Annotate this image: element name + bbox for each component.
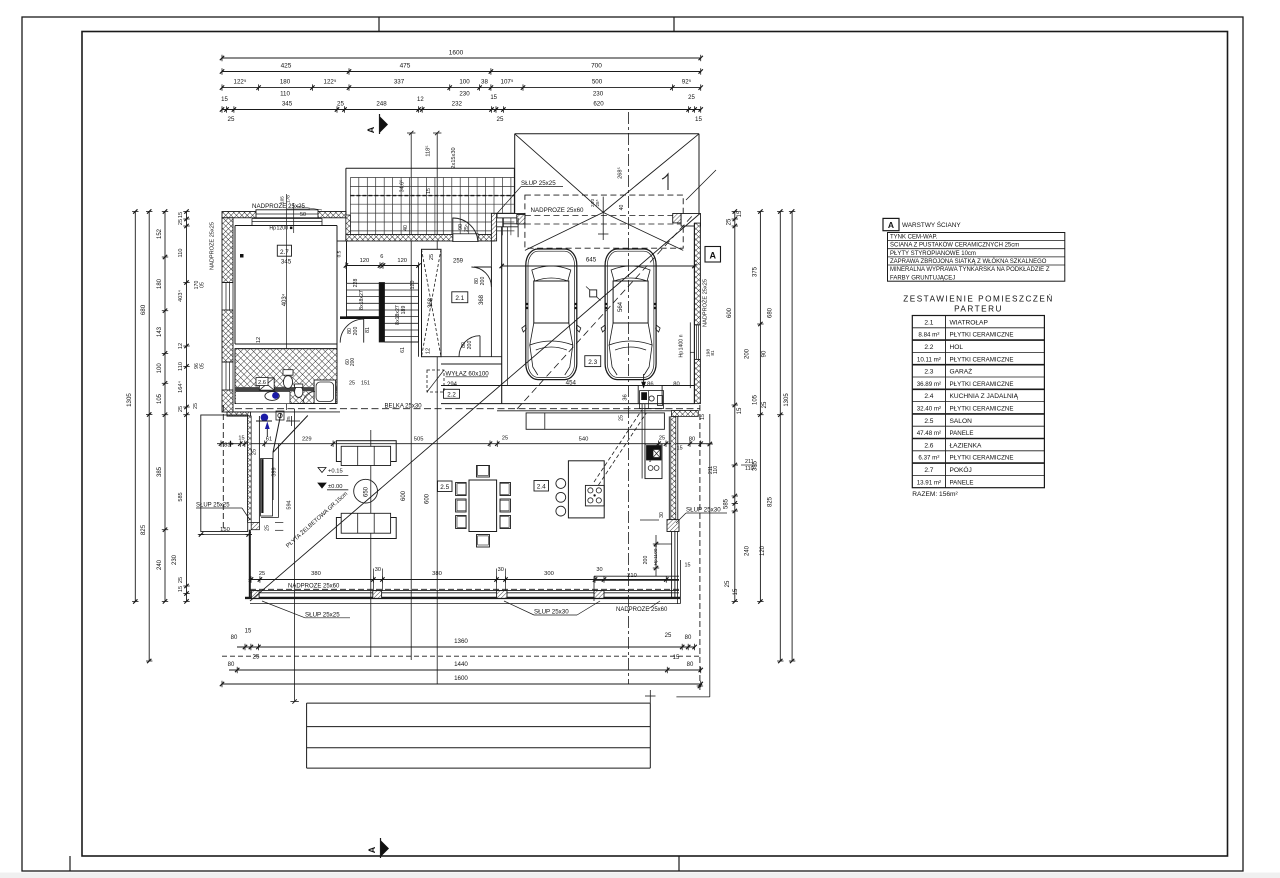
kitchen east wall hatched	[668, 416, 670, 519]
scan gray strip at bottom edge	[0, 873, 1280, 878]
svg-text:425: 425	[281, 63, 292, 70]
svg-text:2.2: 2.2	[447, 392, 456, 399]
svg-text:2.6: 2.6	[258, 380, 266, 386]
stairs hall dim 120/6/120	[346, 265, 419, 267]
svg-text:80: 80	[231, 635, 238, 641]
svg-text:MINERALNA WYPRAWA TYNKARSKA NA: MINERALNA WYPRAWA TYNKARSKA NA PODKŁADZI…	[890, 267, 1050, 273]
svg-text:1360: 1360	[454, 638, 468, 645]
svg-text:80: 80	[685, 635, 692, 641]
top dimension row 425/475/700	[222, 71, 701, 73]
svg-text:25: 25	[193, 403, 199, 409]
svg-text:564: 564	[618, 301, 624, 312]
door 2.1 to hall bottom	[459, 336, 480, 357]
wall bottom of 2.1	[441, 356, 502, 358]
svg-text:15: 15	[245, 629, 252, 635]
svg-text:2.5: 2.5	[440, 484, 449, 491]
garage 645 dim	[502, 265, 695, 267]
west wall of room 2.7 hatched	[222, 218, 233, 283]
svg-text:36.89 m²: 36.89 m²	[917, 381, 941, 388]
svg-text:825: 825	[768, 496, 774, 507]
chairs left	[456, 483, 467, 496]
top dimension row 1600	[222, 57, 701, 59]
svg-text:ZESTAWIENIE POMIESZCZEŃ: ZESTAWIENIE POMIESZCZEŃ	[903, 294, 1054, 304]
svg-text:380: 380	[311, 571, 321, 577]
entrance dot and arrow	[261, 414, 266, 419]
west wall mid hatched	[222, 310, 233, 362]
garage east inner finish line	[689, 322, 691, 388]
svg-text:15: 15	[733, 588, 739, 595]
svg-text:PŁYTKI CERAMICZNE: PŁYTKI CERAMICZNE	[950, 356, 1014, 363]
svg-text:2.7: 2.7	[280, 249, 289, 256]
svg-text:8x18x27: 8x18x27	[359, 290, 365, 310]
svg-text:585: 585	[178, 492, 184, 501]
top band fold marks	[378, 17, 380, 32]
svg-text:151: 151	[361, 381, 370, 387]
svg-text:80: 80	[228, 662, 235, 668]
washer blue dot	[261, 414, 269, 422]
svg-text:1600: 1600	[449, 50, 464, 57]
svg-text:24 0: 24 0	[590, 199, 595, 207]
belka dashed line	[235, 408, 700, 410]
garage interior walls	[501, 227, 503, 404]
SE pillar	[667, 520, 679, 532]
bar stools	[556, 479, 566, 489]
section label A box right	[705, 247, 721, 263]
svg-text:NADPROZE 25x60: NADPROZE 25x60	[616, 607, 668, 613]
toilet	[283, 370, 293, 376]
garage floor drain square	[590, 290, 597, 297]
svg-text:230: 230	[172, 554, 178, 565]
svg-text:13.91 m²: 13.91 m²	[917, 479, 941, 486]
chair bottom	[477, 535, 490, 548]
bathtub	[314, 380, 336, 404]
svg-text:403⁴: 403⁴	[281, 293, 288, 306]
svg-text:540: 540	[579, 437, 589, 443]
svg-text:25: 25	[228, 116, 235, 123]
svg-text:110: 110	[280, 91, 290, 98]
svg-text:228: 228	[353, 279, 359, 288]
svg-text:25: 25	[497, 116, 504, 123]
svg-text:680: 680	[140, 304, 147, 315]
svg-text:25: 25	[619, 415, 625, 421]
svg-text:178: 178	[286, 195, 291, 203]
svg-text:ZAPRAWA ZBROJONA SIATKĄ Z WŁÓK: ZAPRAWA ZBROJONA SIATKĄ Z WŁÓKNA SZKALNE…	[890, 258, 1047, 265]
svg-text:40: 40	[403, 225, 409, 231]
svg-text:25: 25	[429, 254, 435, 260]
garage south wall line east extension	[497, 410, 698, 412]
garage east wall hatched upper	[694, 223, 700, 325]
svg-text:SŁUP 25x30: SŁUP 25x30	[534, 609, 569, 616]
svg-text:2.7: 2.7	[924, 467, 933, 474]
svg-text:WYŁAZ 60x100: WYŁAZ 60x100	[445, 370, 489, 377]
svg-text:240: 240	[157, 559, 163, 570]
svg-text:POKÓJ: POKÓJ	[950, 465, 972, 474]
bottom dashed line	[222, 655, 701, 657]
svg-text:8.84 m²: 8.84 m²	[918, 332, 939, 339]
vertical reference line x628	[628, 112, 630, 684]
west wall corner pillar	[251, 523, 259, 530]
svg-text:PŁYTKI CERAMICZNE: PŁYTKI CERAMICZNE	[950, 381, 1014, 388]
dim row y443.7	[217, 443, 712, 445]
svg-text:80: 80	[673, 382, 679, 388]
chairs right	[500, 483, 511, 496]
level marks	[318, 468, 326, 473]
svg-text:25: 25	[178, 577, 184, 583]
svg-text:122⁵: 122⁵	[234, 79, 247, 86]
svg-text:30: 30	[659, 512, 665, 518]
svg-text:1440: 1440	[454, 661, 468, 668]
svg-text:375: 375	[753, 266, 759, 277]
svg-text:1600: 1600	[454, 675, 468, 682]
svg-text:83⁵: 83⁵	[224, 442, 233, 449]
svg-text:FARBY GRUNTUJĄCEJ: FARBY GRUNTUJĄCEJ	[890, 275, 955, 281]
svg-text:105: 105	[753, 394, 759, 405]
svg-text:211: 211	[745, 459, 754, 465]
svg-text:PŁYTY STYROPIANOWE 10cm: PŁYTY STYROPIANOWE 10cm	[890, 251, 976, 257]
kitchen north counter	[526, 413, 664, 429]
svg-text:620: 620	[593, 101, 604, 108]
svg-text:36: 36	[623, 394, 629, 400]
roof V lines	[515, 134, 604, 213]
stove 4 burners	[585, 485, 604, 506]
svg-text:294: 294	[447, 382, 458, 388]
svg-text:268⁵: 268⁵	[617, 167, 624, 179]
svg-text:680: 680	[768, 307, 774, 318]
svg-text:2.4: 2.4	[924, 393, 933, 400]
svg-text:2.1: 2.1	[455, 295, 464, 302]
svg-text:25: 25	[349, 381, 355, 387]
svg-text:86: 86	[647, 382, 653, 388]
svg-text:2.3: 2.3	[924, 369, 933, 376]
svg-text:32.40 m²: 32.40 m²	[917, 406, 941, 413]
garage south wall	[441, 385, 694, 387]
right dim chains	[734, 212, 736, 602]
svg-text:700: 700	[591, 63, 602, 70]
top dimension row5	[222, 109, 701, 111]
svg-text:120: 120	[360, 258, 370, 264]
top dimension row3	[222, 87, 701, 89]
svg-text:15: 15	[178, 586, 184, 592]
svg-text:25: 25	[337, 101, 344, 108]
west window bathroom	[222, 361, 233, 363]
north wall west part with hatch	[222, 212, 346, 218]
legend table	[888, 233, 1065, 282]
svg-text:25: 25	[178, 219, 184, 225]
south wall dim row y579.5	[249, 579, 679, 581]
svg-text:30: 30	[498, 567, 504, 573]
garage east window	[694, 324, 700, 326]
svg-text:505: 505	[414, 437, 424, 443]
hall east wall lines	[418, 266, 420, 357]
kitchen inner lines	[594, 575, 679, 577]
svg-text:345: 345	[281, 259, 292, 266]
svg-text:110: 110	[745, 466, 754, 472]
svg-text:TYNK CEM-WAP.: TYNK CEM-WAP.	[890, 235, 938, 241]
door 2.1 to garage	[490, 267, 492, 287]
svg-text:600: 600	[727, 307, 733, 318]
west porch slab	[201, 415, 248, 532]
svg-text:30: 30	[596, 567, 602, 573]
svg-text:WIATROŁAP: WIATROŁAP	[950, 319, 989, 326]
svg-text:05: 05	[200, 363, 206, 369]
svg-text:385: 385	[157, 466, 163, 477]
svg-text:143: 143	[157, 326, 163, 337]
svg-text:380: 380	[432, 571, 442, 577]
svg-text:2x15x30: 2x15x30	[451, 147, 457, 168]
svg-text:A: A	[709, 251, 716, 261]
salon west wall	[247, 416, 249, 523]
washbasin sink oval	[265, 392, 279, 401]
svg-text:368: 368	[479, 294, 485, 305]
plyta zelbetowa diagonal	[250, 214, 700, 602]
svg-text:PANELE: PANELE	[950, 430, 974, 437]
svg-text:80: 80	[689, 437, 695, 443]
svg-text:107⁵: 107⁵	[501, 79, 514, 86]
window extension lines	[286, 194, 288, 410]
svg-text:248: 248	[376, 101, 387, 108]
svg-text:645: 645	[586, 257, 597, 264]
svg-text:ŁAZIENKA: ŁAZIENKA	[950, 442, 982, 449]
garage east wall hatched lower	[694, 359, 700, 403]
svg-text:120: 120	[397, 258, 407, 264]
dim 150	[199, 534, 252, 536]
svg-text:NADPROŻE 25x25: NADPROŻE 25x25	[702, 279, 709, 327]
bathroom fixtures: washbasin	[259, 378, 274, 390]
svg-text:403⁴: 403⁴	[177, 290, 184, 302]
svg-text:81: 81	[710, 350, 716, 356]
svg-text:15: 15	[700, 414, 706, 420]
svg-text:229: 229	[302, 437, 312, 443]
room schedule table	[912, 316, 1044, 488]
svg-text:SŁUP 25x25: SŁUP 25x25	[521, 180, 556, 187]
svg-text:200: 200	[745, 348, 751, 359]
svg-text:15: 15	[695, 116, 702, 123]
bathroom low wall band	[235, 387, 337, 391]
svg-text:ŚCIANA Z PUSTAKÓW CERAMICZNYCH: ŚCIANA Z PUSTAKÓW CERAMICZNYCH 25cm	[890, 241, 1019, 249]
interior dim 399	[278, 444, 280, 518]
svg-text:30: 30	[375, 567, 381, 573]
svg-text:38: 38	[481, 79, 488, 86]
svg-text:WARSTWY ŚCIANY: WARSTWY ŚCIANY	[902, 220, 961, 229]
bottom dim row 1440	[229, 669, 701, 671]
svg-text:232: 232	[452, 101, 463, 108]
svg-text:200: 200	[467, 341, 473, 350]
bathroom floor crosshatch	[235, 349, 337, 404]
svg-text:25: 25	[762, 401, 768, 408]
svg-text:152: 152	[157, 228, 163, 239]
svg-text:SALON: SALON	[950, 418, 973, 425]
porch south wall hatched (hall north wall)	[346, 235, 494, 242]
hol south wall hatched	[227, 412, 251, 416]
svg-text:200: 200	[353, 327, 359, 336]
entrance arrow V	[273, 413, 281, 452]
section marker A bottom	[381, 840, 390, 857]
svg-text:25: 25	[178, 406, 184, 412]
west glazing line	[249, 530, 251, 598]
svg-text:34.6⁵: 34.6⁵	[400, 180, 406, 193]
svg-text:92⁵: 92⁵	[682, 79, 692, 86]
svg-text:150: 150	[220, 527, 230, 533]
svg-text:825: 825	[140, 524, 147, 535]
svg-text:25: 25	[725, 580, 731, 587]
svg-text:240: 240	[745, 545, 751, 556]
svg-text:15: 15	[685, 563, 691, 569]
car 2 in garage	[601, 249, 660, 380]
svg-text:80: 80	[687, 662, 694, 668]
svg-text:12: 12	[256, 337, 262, 343]
svg-text:600: 600	[401, 490, 407, 501]
svg-text:120: 120	[410, 281, 416, 290]
svg-text:399: 399	[271, 467, 277, 476]
west window room 2.7	[222, 282, 233, 284]
left dim chain detail	[164, 212, 166, 602]
bidet	[295, 386, 303, 398]
svg-text:61: 61	[400, 347, 406, 353]
svg-text:Hp 1200 ■: Hp 1200 ■	[269, 226, 292, 232]
svg-text:300: 300	[544, 571, 554, 577]
svg-text:259: 259	[453, 259, 464, 265]
2.6 label	[256, 378, 268, 386]
small dim 50 over window	[287, 208, 310, 210]
svg-text:2.4: 2.4	[537, 484, 546, 491]
sofa bottom	[336, 518, 396, 539]
svg-text:25: 25	[688, 95, 695, 101]
garage side door steps	[640, 391, 664, 409]
svg-text:A: A	[367, 846, 377, 853]
kitchen counter right wall	[645, 444, 662, 479]
svg-text:337: 337	[394, 79, 405, 86]
svg-text:90: 90	[762, 350, 768, 357]
svg-text:230: 230	[459, 91, 470, 98]
svg-text:PŁYTKI CERAMICZNE: PŁYTKI CERAMICZNE	[950, 406, 1014, 413]
svg-text:368: 368	[428, 297, 434, 308]
right outside dashed vertical	[699, 405, 701, 690]
chair top	[477, 466, 490, 478]
svg-text:100: 100	[157, 363, 163, 374]
vertical reference line x294	[294, 409, 296, 702]
left dim chain inner	[186, 212, 188, 602]
svg-text:A: A	[366, 126, 376, 133]
svg-text:15: 15	[238, 436, 244, 442]
round table	[354, 479, 378, 503]
kitchen island	[568, 461, 604, 518]
legend A box	[883, 218, 899, 230]
svg-text:HOL: HOL	[950, 344, 964, 351]
svg-text:12: 12	[417, 97, 424, 103]
svg-text:81: 81	[365, 327, 371, 333]
dining table	[469, 480, 497, 532]
wall 2.7/stairs lines	[337, 240, 347, 242]
svg-text:RAZEM: 156m²: RAZEM: 156m²	[912, 491, 958, 498]
svg-text:122⁵: 122⁵	[324, 79, 337, 86]
bathroom white fixture zone	[236, 391, 290, 403]
svg-text:A: A	[888, 220, 894, 230]
svg-text:2.3: 2.3	[588, 359, 597, 366]
svg-text:600: 600	[425, 493, 431, 504]
window in north wall of room 2.7	[256, 210, 318, 218]
room 2.7 label	[277, 245, 291, 256]
svg-text:1305: 1305	[784, 393, 790, 407]
svg-text:110: 110	[178, 362, 184, 371]
svg-text:2.1: 2.1	[924, 319, 933, 326]
stairs treads	[347, 283, 419, 336]
svg-text:25: 25	[253, 654, 260, 661]
svg-text:25⁵: 25⁵	[464, 224, 470, 232]
room label 2.5	[438, 481, 453, 492]
svg-text:110: 110	[713, 466, 719, 474]
svg-text:NADPROZE 25x60: NADPROZE 25x60	[531, 207, 585, 214]
svg-text:180: 180	[157, 278, 163, 289]
svg-text:GARAŻ: GARAŻ	[950, 367, 973, 376]
svg-text:15: 15	[221, 97, 228, 103]
east glazing	[671, 532, 673, 598]
vertical reference line x411	[410, 133, 412, 660]
2.1 room label	[452, 292, 468, 303]
svg-text:25: 25	[502, 436, 508, 442]
room 2.7 interior	[235, 225, 337, 227]
svg-text:PARTERU: PARTERU	[954, 305, 1003, 314]
garage north wall pillars	[491, 213, 496, 241]
svg-text:15: 15	[737, 210, 743, 217]
svg-text:25⁵: 25⁵	[595, 199, 600, 206]
svg-text:15: 15	[737, 407, 743, 414]
porch top edge	[346, 167, 515, 169]
svg-text:585: 585	[724, 498, 730, 509]
svg-text:180: 180	[280, 79, 291, 86]
svg-text:50: 50	[300, 212, 306, 218]
svg-text:47.48 m²: 47.48 m²	[917, 430, 941, 437]
garage door dashed rect	[525, 195, 683, 248]
small fixtures below bath	[276, 411, 284, 420]
svg-text:±0.00: ±0.00	[328, 484, 342, 490]
X-strip wall	[422, 249, 442, 356]
svg-text:105: 105	[157, 393, 163, 404]
svg-text:Hp 1100 n: Hp 1100 n	[653, 544, 659, 565]
svg-text:+0.15: +0.15	[328, 469, 343, 475]
bottom band fold marks	[69, 856, 71, 871]
svg-text:6.37 m²: 6.37 m²	[918, 455, 939, 462]
car 1 in garage	[522, 249, 581, 380]
section marker A top	[380, 116, 389, 133]
svg-text:NADPROZE 25x25: NADPROZE 25x25	[210, 222, 216, 270]
svg-text:200: 200	[480, 277, 486, 286]
svg-text:164⁴: 164⁴	[177, 381, 184, 393]
svg-text:200: 200	[350, 358, 356, 367]
radiator	[261, 459, 273, 517]
vertical reference line x437	[436, 133, 438, 684]
SE corner wall band hatched	[671, 411, 698, 417]
vertical reference line x371	[370, 430, 372, 657]
svg-text:25: 25	[727, 218, 733, 225]
svg-text:05: 05	[200, 282, 206, 288]
entry door opening in porch wall	[453, 234, 478, 242]
svg-text:SŁUP 25x25: SŁUP 25x25	[196, 503, 230, 509]
garage roof overhang outline	[515, 133, 699, 135]
svg-text:105: 105	[280, 196, 285, 204]
svg-text:25: 25	[659, 436, 665, 442]
svg-text:KUCHNIA Z JADALNIĄ: KUCHNIA Z JADALNIĄ	[950, 393, 1019, 400]
svg-text:1305: 1305	[126, 393, 133, 407]
door to room 2.7	[340, 319, 364, 343]
svg-text:6: 6	[380, 254, 383, 260]
svg-text:2.6: 2.6	[924, 442, 933, 449]
svg-text:12: 12	[426, 348, 432, 354]
svg-text:5: 5	[649, 458, 652, 463]
svg-text:110: 110	[178, 249, 184, 258]
svg-text:25: 25	[259, 571, 265, 577]
flue pipes by wall	[641, 404, 643, 479]
svg-text:15: 15	[426, 188, 432, 194]
